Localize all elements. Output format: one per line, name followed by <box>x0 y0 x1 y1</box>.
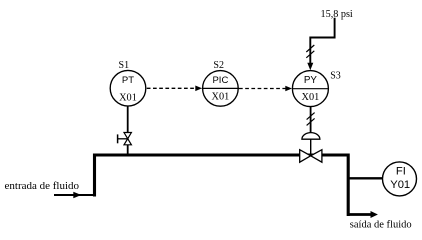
svg-text:X01: X01 <box>119 93 137 104</box>
wire: main process pipe (inlet riser + horizontal run + outlet drop) <box>95 155 349 216</box>
supply line 15,8 psi <box>310 18 334 64</box>
pneumatic slashes on actuator line <box>307 113 315 120</box>
svg-text:entrada de fluido: entrada de fluido <box>5 180 80 192</box>
svg-text:Y01: Y01 <box>390 179 410 191</box>
svg-text:FI: FI <box>396 166 406 178</box>
svg-text:X01: X01 <box>212 91 230 102</box>
valve V1 stem (from S1 down to pipe) <box>127 107 129 155</box>
svg-text:PT: PT <box>122 75 134 86</box>
signal line S1 to S2 (dashed) <box>147 87 196 89</box>
arrowhead into S2 <box>195 86 202 92</box>
svg-text:S3: S3 <box>330 70 341 81</box>
svg-text:PIC: PIC <box>212 75 228 86</box>
arrowhead into S3 <box>285 86 292 92</box>
control valve body (bowtie) <box>300 150 311 163</box>
svg-text:X01: X01 <box>302 92 320 103</box>
wire: outlet line (saida) <box>348 213 372 216</box>
valve V1 body (hand valve bowtie) <box>124 133 131 139</box>
arrowhead inlet <box>73 192 81 198</box>
S2 midline <box>202 87 239 89</box>
svg-text:S1: S1 <box>119 60 130 71</box>
signal line S2 to S3 (dashed) <box>239 88 286 90</box>
valve V1 handle <box>118 138 127 140</box>
instrument bubble S1 (PT X01) <box>110 70 146 106</box>
wire: branch to FI <box>348 177 383 179</box>
signal line S3 to actuator (pneumatic) <box>310 107 312 134</box>
instrument bubble S3 (PY X01) <box>292 71 328 107</box>
S3 midline <box>292 88 329 90</box>
instrument bubble FI (Y01) <box>383 162 417 196</box>
wire: inlet line (entrada) <box>54 194 96 196</box>
instrument bubble S2 (PIC X01) <box>203 71 239 107</box>
svg-text:PY: PY <box>304 75 318 86</box>
pneumatic slashes on supply line <box>306 45 314 52</box>
actuator diaphragm dome <box>302 133 320 140</box>
svg-text:15,8 psi: 15,8 psi <box>321 9 353 20</box>
arrowhead outlet <box>371 211 378 218</box>
svg-text:saída de fluido: saída de fluido <box>350 219 412 230</box>
svg-text:S2: S2 <box>213 60 224 71</box>
arrowhead into S3 top <box>307 63 313 70</box>
control valve stem <box>310 139 312 156</box>
